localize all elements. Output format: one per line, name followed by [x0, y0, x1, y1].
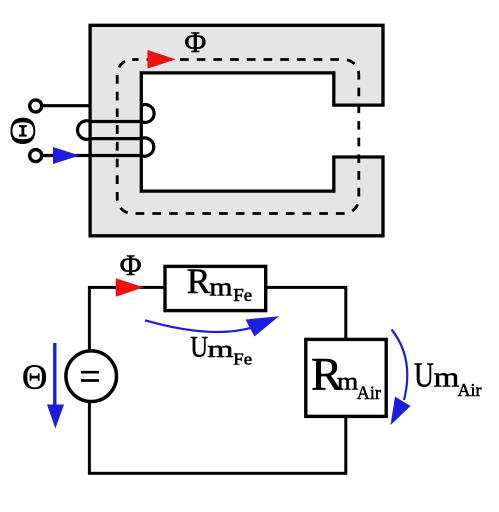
- svg-text:m: m: [434, 362, 460, 393]
- MMF direction arrow (blue, down): [53, 343, 56, 406]
- svg-text:U: U: [414, 355, 434, 394]
- svg-text:Fe: Fe: [233, 349, 252, 368]
- svg-text:Φ: Φ: [184, 26, 206, 59]
- coil turn arc right 2: [141, 138, 153, 156]
- svg-text:m: m: [337, 368, 359, 396]
- Um_Air arc arrow (blue): [392, 330, 408, 401]
- svg-text:U: U: [190, 330, 208, 363]
- coil turn arc right 1: [141, 105, 154, 123]
- coil wire front 1: [90, 120, 141, 123]
- svg-text:Θ: Θ: [22, 357, 47, 396]
- svg-text:Air: Air: [458, 380, 482, 400]
- circuit loop wire: [89, 287, 345, 473]
- svg-text:Air: Air: [357, 383, 381, 405]
- current arrow (blue): [53, 147, 80, 164]
- flux arrow (red, circuit): [116, 278, 144, 297]
- resistor Rm_Fe box: [165, 266, 266, 310]
- source circle: [66, 351, 117, 402]
- svg-text:Φ: Φ: [120, 249, 142, 282]
- svg-text:Θ: Θ: [3, 116, 43, 145]
- wire core to terminal (lower): [41, 154, 142, 157]
- svg-text:R: R: [187, 261, 211, 301]
- svg-text:m: m: [207, 336, 233, 362]
- svg-text:Fe: Fe: [233, 286, 252, 306]
- coil turn arc left: [78, 121, 91, 139]
- terminal lower: [30, 150, 42, 162]
- resistor Rm_Air box: [306, 339, 386, 416]
- Um_Fe arc arrow (blue): [145, 320, 251, 332]
- flux arrow (red): [148, 50, 176, 69]
- terminal upper: [30, 100, 42, 112]
- coil wire front 2: [90, 137, 141, 140]
- svg-text:m: m: [209, 273, 232, 302]
- wire terminal to core (upper): [41, 104, 91, 107]
- flux path (dashed): [117, 60, 359, 214]
- equals sign in source: [81, 371, 99, 374]
- iron core with air gap: [90, 25, 383, 236]
